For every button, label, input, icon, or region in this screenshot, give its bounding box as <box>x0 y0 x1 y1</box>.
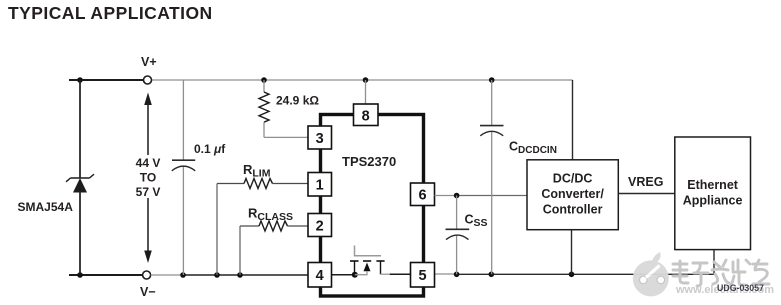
svg-text:CSS: CSS <box>465 213 488 230</box>
svg-text:44 V: 44 V <box>136 156 161 170</box>
wire bottom rail left black segment <box>69 274 143 276</box>
title TYPICAL APPLICATION <box>8 3 213 23</box>
svg-text:6: 6 <box>418 188 426 204</box>
svg-text:24.9 kΩ: 24.9 kΩ <box>276 94 319 108</box>
svg-text:RLIM: RLIM <box>243 162 271 180</box>
svg-text:TYPICAL APPLICATION: TYPICAL APPLICATION <box>8 3 213 23</box>
svg-text:1: 1 <box>316 178 324 194</box>
wire bottom rail segment (pin 4 to mosfet dot) <box>332 274 357 276</box>
svg-text:TPS2370: TPS2370 <box>342 154 396 169</box>
label 44 V TO 57 V <box>133 155 164 199</box>
resistor RCLASS <box>240 221 308 275</box>
node bottom rail x=571 <box>569 272 575 278</box>
svg-text:Ethernet: Ethernet <box>687 178 739 192</box>
resistor 24.9k vertical <box>259 80 308 137</box>
capacitor CSS <box>446 229 470 239</box>
label TPS2370 <box>342 154 396 169</box>
watermark www.elecfans.com <box>675 284 774 296</box>
node junction top rail x=264 <box>261 77 267 83</box>
pin 8 <box>354 104 379 126</box>
capacitor CDCDCIN <box>480 126 504 136</box>
block Ethernet Appliance <box>675 137 751 250</box>
wire DC/DC bottom to rail <box>571 230 573 275</box>
svg-text:VREG: VREG <box>628 175 663 189</box>
wire bottom rail segment (Css to right end) <box>457 273 714 275</box>
terminal V+ <box>141 55 157 84</box>
label 24.9 kOhm <box>276 94 319 108</box>
svg-text:Converter/: Converter/ <box>541 187 604 201</box>
wire top rail corner down to DC/DC <box>572 80 574 160</box>
svg-text:SMAJ54A: SMAJ54A <box>18 200 74 214</box>
wire top rail gray segment (V+ to corner) <box>152 79 573 81</box>
capacitor C 0.1uf <box>172 160 195 171</box>
wire left vertical branch x=80 <box>79 80 81 275</box>
pin 4 <box>308 263 332 288</box>
resistor RLIM <box>217 179 308 276</box>
wire bottom rail gray segment (V- to 0.1uf) <box>151 274 183 276</box>
svg-text:Controller: Controller <box>543 203 603 217</box>
pin 3 <box>308 126 332 149</box>
svg-text:5: 5 <box>418 268 426 284</box>
svg-text:V−: V− <box>140 285 156 299</box>
wire segment mosfet to pin 5 <box>389 273 411 275</box>
terminal V- <box>140 271 156 299</box>
wire 0.1uf branch vertical x=183.4 <box>182 80 184 275</box>
label RLIM <box>243 162 271 180</box>
watermark logo elecfans <box>633 252 669 296</box>
label VREG <box>628 175 663 189</box>
pin 2 <box>308 214 332 237</box>
svg-text:0.1 μf: 0.1 μf <box>194 142 226 156</box>
svg-text:TO: TO <box>140 171 156 185</box>
svg-text:57 V: 57 V <box>136 185 161 199</box>
diode D1 SMAJ54A (TVS) <box>66 174 94 192</box>
svg-text:V+: V+ <box>141 55 157 69</box>
node junction top rail x=365.5 <box>363 77 369 83</box>
wire Css vertical <box>456 196 458 275</box>
label 0.1 uf <box>194 142 226 156</box>
wire pin8 stub <box>365 80 367 104</box>
wire bottom rail segment (pin 5 to Css) gray <box>435 273 457 275</box>
node bottom rail x=456.6 <box>454 272 460 278</box>
node junction top rail x=80 <box>77 77 83 83</box>
node pin6 wire x=456.6 <box>454 193 460 199</box>
node bottom rail x=240 <box>237 272 243 278</box>
wire CDCDCIN vertical <box>491 80 493 274</box>
svg-text:8: 8 <box>362 108 370 124</box>
svg-text:2: 2 <box>316 218 324 234</box>
label CSS <box>465 213 488 230</box>
wire top rail left black segment <box>69 79 144 81</box>
svg-text:Appliance: Appliance <box>683 194 743 208</box>
node bottom rail x=183 <box>180 272 186 278</box>
node bottom rail x=80 <box>77 272 83 278</box>
IC U1 TPS2370 body <box>321 115 424 297</box>
wire Ethernet bottom to rail <box>713 250 715 275</box>
wire VREG <box>618 193 675 195</box>
watermark chinese characters <box>673 260 769 286</box>
node bottom rail x=217 <box>214 272 220 278</box>
pin 1 <box>308 173 332 197</box>
pin 5 <box>411 263 435 288</box>
svg-text:3: 3 <box>316 131 324 147</box>
block DC/DC Converter/Controller <box>527 160 618 230</box>
node bottom rail x=354.8 <box>352 272 358 278</box>
wire bottom rail segment (0.1uf to pin 4) <box>183 274 308 276</box>
label SMAJ54A <box>18 200 74 214</box>
svg-text:CDCDCIN: CDCDCIN <box>509 140 557 157</box>
svg-text:DC/DC: DC/DC <box>553 172 593 186</box>
arrow voltage range indicator <box>144 93 152 264</box>
svg-text:UDG-03057: UDG-03057 <box>717 283 764 293</box>
node junction top rail x=491.7 <box>489 77 495 83</box>
label CDCDCIN <box>509 140 557 157</box>
label UDG-03057 <box>717 283 764 293</box>
pin 6 <box>411 183 435 206</box>
mosfet Q1 internal pass FET <box>350 246 390 275</box>
node bottom rail x=491.3 <box>489 272 495 278</box>
wire pin6 to DC/DC block <box>435 195 528 197</box>
label RCLASS <box>248 206 293 224</box>
svg-text:RCLASS: RCLASS <box>248 206 293 224</box>
svg-text:4: 4 <box>316 268 324 284</box>
